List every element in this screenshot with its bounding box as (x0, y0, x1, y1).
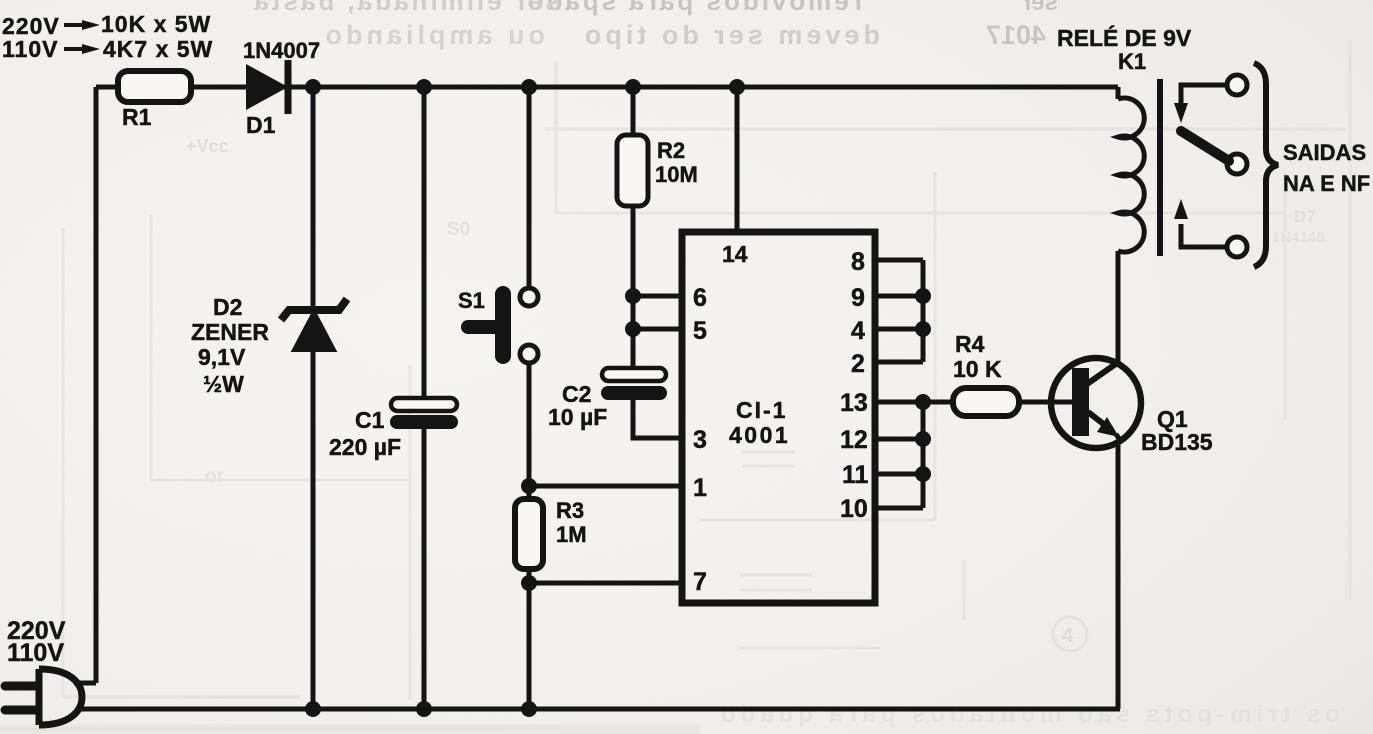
svg-text:1: 1 (693, 474, 707, 502)
svg-text:ou ampliando: ou ampliando (322, 20, 546, 50)
svg-text:½W: ½W (203, 371, 244, 397)
wire S1 branch (527, 87, 532, 486)
svg-text:R2: R2 (657, 138, 685, 163)
svg-text:3: 3 (693, 426, 707, 454)
svg-text:removidos para spado: removidos para spado (525, 0, 862, 16)
node junction pin4 bus (915, 321, 931, 337)
diode D2 zener (281, 299, 347, 350)
wire pin7 (529, 581, 682, 586)
wire bottom rail (78, 707, 1120, 712)
plug (5, 669, 82, 725)
svg-text:13: 13 (840, 389, 868, 417)
node junction pin9 bus (915, 288, 931, 304)
svg-text:110V: 110V (7, 639, 64, 667)
wire bus 13-12-11-10 (921, 402, 926, 508)
svg-text:+Vcc: +Vcc (186, 136, 229, 156)
svg-text:7: 7 (693, 568, 707, 596)
svg-text:4K7 x 5W: 4K7 x 5W (103, 36, 213, 62)
wire pin6 (633, 294, 682, 299)
wire pin10 (875, 506, 923, 511)
svg-text:RELÉ DE 9V: RELÉ DE 9V (1057, 24, 1192, 51)
svg-text:12: 12 (840, 426, 868, 454)
IC U1 CI-1 4001 body (682, 232, 875, 603)
transistor Q1 (1051, 358, 1141, 448)
wire pin12 (875, 437, 923, 442)
wire pin4 (875, 327, 923, 332)
svg-text:10 µF: 10 µF (548, 404, 607, 430)
svg-text:ser eliminada, basta: ser eliminada, basta (251, 0, 560, 16)
svg-text:8: 8 (851, 248, 865, 276)
label 110V 4K7 x 5W (2, 36, 213, 62)
wire collector up (1116, 252, 1121, 362)
relay contact NF top (1174, 75, 1247, 123)
svg-text:ZENER: ZENER (191, 319, 269, 345)
node junction R3 top (521, 478, 537, 494)
svg-text:devem ser do tipo: devem ser do tipo (581, 20, 880, 50)
svg-text:BD135: BD135 (1141, 429, 1213, 455)
node junction D2 bottom (305, 701, 321, 717)
node junction pin13 bus (915, 394, 931, 410)
wire R2 branch (631, 87, 636, 368)
svg-text:4: 4 (1062, 625, 1074, 647)
svg-text:D7: D7 (1294, 207, 1316, 226)
arrow 110V (64, 47, 84, 51)
svg-text:6: 6 (693, 284, 707, 312)
wire pin11 (875, 472, 923, 477)
svg-text:1N4148: 1N4148 (1272, 229, 1325, 246)
diode D1 (246, 60, 288, 114)
svg-text:11: 11 (842, 461, 869, 489)
svg-text:10M: 10M (655, 162, 698, 187)
svg-text:9,1V: 9,1V (198, 344, 246, 370)
wire plug top lead (74, 681, 96, 686)
svg-text:CI-1: CI-1 (736, 397, 787, 423)
svg-text:D1: D1 (246, 112, 276, 138)
node junction pin5 (625, 321, 641, 337)
svg-text:S1: S1 (458, 288, 485, 313)
node junction R2 top (625, 79, 641, 95)
svg-text:S0: S0 (447, 219, 470, 240)
svg-text:1M: 1M (556, 522, 587, 547)
capacitor C2 (601, 368, 667, 400)
wire C1 branch (422, 87, 427, 709)
resistor R3 (515, 499, 543, 569)
svg-text:4: 4 (851, 317, 865, 345)
wire pin8 (875, 258, 923, 263)
node junction D2 top (305, 79, 321, 95)
svg-text:or: or (205, 466, 225, 487)
svg-text:220 µF: 220 µF (329, 434, 401, 460)
svg-text:14: 14 (722, 241, 748, 267)
resistor R4 (953, 388, 1019, 416)
svg-text:D2: D2 (213, 294, 242, 320)
wire pin9 (875, 294, 923, 299)
arrow 220V (64, 23, 84, 27)
svg-text:9: 9 (851, 284, 865, 312)
svg-text:SAIDAS: SAIDAS (1283, 140, 1366, 165)
capacitor C1 (390, 398, 458, 429)
relay core bar (1157, 79, 1163, 256)
svg-text:10K x 5W: 10K x 5W (101, 11, 211, 37)
relay contact NA bottom (1174, 199, 1247, 257)
node junction C1 bottom (416, 701, 432, 717)
svg-text:10: 10 (840, 495, 868, 523)
svg-text:R1: R1 (122, 104, 152, 130)
svg-text:ser: ser (1022, 0, 1058, 16)
relay K1 coil (1118, 87, 1144, 358)
wire R4 to base (1019, 400, 1074, 405)
svg-text:os trim-pots sao montados para: os trim-pots sao montados para quado (716, 701, 1340, 728)
wire pin13 to R4 (875, 400, 953, 405)
relay armature (1181, 131, 1247, 174)
svg-text:1N4007: 1N4007 (243, 38, 320, 63)
node junction C1 top (416, 79, 432, 95)
switch S1 (468, 288, 538, 363)
svg-text:110V: 110V (2, 36, 58, 62)
wire top rail (96, 85, 1118, 90)
node junction pin11 bus (915, 466, 931, 482)
svg-text:K1: K1 (1118, 49, 1146, 74)
wire left vertical (94, 87, 99, 683)
svg-text:2: 2 (851, 350, 865, 378)
svg-text:4017: 4017 (986, 20, 1046, 50)
wire C2 to pin3 (633, 400, 682, 438)
node junction pin12 bus (915, 431, 931, 447)
wire pin14 (735, 87, 740, 232)
node junction R3 pin7 (521, 575, 537, 591)
svg-text:C1: C1 (355, 407, 385, 433)
wire pin2 (875, 360, 923, 365)
brace saidas (1254, 63, 1278, 267)
svg-text:5: 5 (693, 317, 707, 345)
wire pin1 (529, 484, 682, 489)
wire R3 bottom (527, 486, 532, 709)
wire pin5 (633, 327, 682, 332)
resistor R1 (118, 71, 191, 102)
node junction pin14 top (729, 79, 745, 95)
svg-text:NA E NF: NA E NF (1283, 171, 1370, 196)
node junction pin6 (625, 288, 641, 304)
svg-text:4001: 4001 (729, 422, 790, 448)
svg-text:R4: R4 (955, 331, 985, 357)
wire emitter down (1116, 442, 1121, 709)
node junction S1 top (521, 79, 537, 95)
node junction R3 bottom (521, 701, 537, 717)
svg-text:10 K: 10 K (953, 356, 1002, 382)
wire bus 8-9-4-2 (921, 260, 926, 362)
svg-text:R3: R3 (556, 498, 584, 523)
wire D2 branch (311, 87, 316, 709)
label 220V 10K x 5W (2, 11, 211, 39)
resistor R2 (617, 135, 648, 206)
